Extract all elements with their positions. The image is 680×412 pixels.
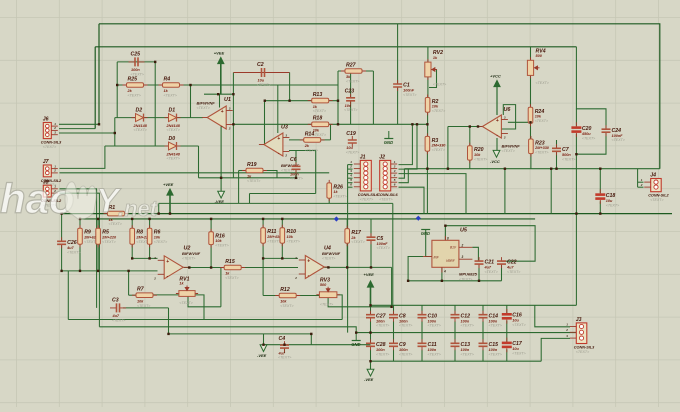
wire <box>372 71 374 124</box>
svg-text:<TEXT>: <TEXT> <box>346 80 359 84</box>
wire R24-R23 column <box>530 122 532 139</box>
wire J2 pin6 <box>399 187 425 213</box>
wire <box>347 165 349 333</box>
resistor R26 <box>327 180 347 201</box>
svg-text:500: 500 <box>536 54 543 58</box>
wire <box>504 169 506 214</box>
wire +VCC stem <box>496 87 498 116</box>
resistor R7 <box>132 287 157 308</box>
svg-text:<TEXT>: <TEXT> <box>399 324 412 328</box>
wire U2 plus row <box>132 257 157 259</box>
svg-text:<TEXT>: <TEXT> <box>536 81 549 85</box>
wire <box>219 94 221 107</box>
wire J6 pin2 <box>59 128 95 130</box>
svg-text:<TEXT>: <TEXT> <box>225 276 238 280</box>
resistor R3 <box>425 133 446 154</box>
power +VEE <box>364 272 375 287</box>
svg-text:<TEXT>: <TEXT> <box>474 157 487 161</box>
svg-text:J2: J2 <box>379 155 385 161</box>
ground <box>351 333 361 347</box>
svg-text:<TEXT>: <TEXT> <box>164 94 177 98</box>
wire C20/C24 bottom bus <box>576 132 606 154</box>
svg-text:10k: 10k <box>280 300 287 304</box>
svg-text:<TEXT>: <TEXT> <box>576 350 589 354</box>
svg-text:+: + <box>166 259 169 265</box>
wire C4 bottom lead <box>284 348 286 353</box>
wire J3 pin1 route <box>535 305 570 327</box>
svg-text:<TEXT>: <TEXT> <box>428 352 441 356</box>
svg-text:100n: 100n <box>461 319 470 323</box>
svg-text:4u7: 4u7 <box>66 246 74 250</box>
connector J4 <box>640 173 670 202</box>
svg-text:<TEXT>: <TEXT> <box>432 148 445 152</box>
svg-text:2M+220: 2M+220 <box>101 235 117 239</box>
wire J4 drop <box>637 169 639 188</box>
wire <box>262 258 264 295</box>
wire R27 row <box>338 70 373 72</box>
resistor R20 <box>468 143 488 163</box>
wire +VEE stem (U2) <box>169 195 171 214</box>
wire RV3 right <box>337 295 342 320</box>
svg-text:<TEXT>: <TEXT> <box>102 240 115 244</box>
resistor R13 <box>308 92 333 113</box>
svg-text:2k: 2k <box>127 89 133 93</box>
ground <box>384 131 394 145</box>
wire <box>249 194 251 204</box>
wire C1 leads <box>397 24 399 84</box>
svg-text:R4: R4 <box>164 76 171 82</box>
svg-text:<TEXT>: <TEXT> <box>128 94 141 98</box>
wire U3 output stem <box>264 101 266 145</box>
wire RV3 wiper loop <box>328 267 392 306</box>
svg-text:2: 2 <box>640 183 643 187</box>
wire U5 bottom pin <box>441 267 443 281</box>
svg-text:10u: 10u <box>512 319 519 323</box>
op-amp U1 <box>202 106 233 131</box>
svg-text:<TEXT>: <TEXT> <box>432 109 445 113</box>
power -VEE <box>215 191 225 204</box>
potentiometer RV2 <box>425 50 446 86</box>
resistor R11 <box>261 225 282 247</box>
wire U2 minus row <box>62 270 158 272</box>
wire R20 leads <box>469 127 471 146</box>
wire R25 row <box>117 84 338 86</box>
svg-text:<TEXT>: <TEXT> <box>167 128 180 132</box>
svg-text:+: + <box>307 259 310 265</box>
wire U6 pin3 row <box>508 121 531 123</box>
wire U5 top loop <box>445 226 535 262</box>
svg-text:<TEXT>: <TEXT> <box>459 278 472 282</box>
wire <box>67 271 69 320</box>
diode D2 <box>132 107 148 132</box>
svg-text:10k: 10k <box>535 115 542 119</box>
svg-text:.net: .net <box>118 196 159 221</box>
capacitor C15 <box>479 339 502 356</box>
svg-text:100n: 100n <box>399 348 408 352</box>
capacitor C16 (polarized) <box>502 309 526 327</box>
svg-text:+VCC: +VCC <box>490 74 501 79</box>
svg-text:10k: 10k <box>137 299 144 303</box>
resistor R10 <box>280 225 300 247</box>
svg-text:100nF: 100nF <box>403 89 415 93</box>
wire RV1 wiper <box>188 296 221 306</box>
wire J4 pin2 <box>638 186 644 188</box>
svg-text:R18: R18 <box>313 116 323 122</box>
wire +VEE stem <box>220 62 222 94</box>
svg-text:10k: 10k <box>287 235 294 239</box>
svg-text:2: 2 <box>153 276 156 280</box>
svg-text:100n: 100n <box>461 348 470 352</box>
svg-text:4: 4 <box>443 270 446 274</box>
wire <box>238 171 240 204</box>
svg-text:4: 4 <box>393 174 396 178</box>
wire <box>131 244 133 258</box>
svg-text:10k: 10k <box>474 153 481 157</box>
capacitor C3 <box>110 297 126 322</box>
svg-text:CONN-SIL2: CONN-SIL2 <box>648 194 669 198</box>
wire U1 pin row / R18 bus <box>233 123 427 125</box>
resistor R12 <box>275 287 300 308</box>
wire U1 feedback vertical <box>232 73 234 178</box>
svg-text:C25: C25 <box>131 51 141 57</box>
power +VEE <box>163 182 174 195</box>
svg-text:+: + <box>221 109 224 115</box>
wire <box>198 146 200 178</box>
wire U5 bottom bus <box>408 280 501 282</box>
svg-text:500n: 500n <box>562 153 571 157</box>
wire C6 top lead <box>295 151 297 165</box>
resistor R25 <box>123 76 148 97</box>
wire R17 stubs <box>346 219 348 229</box>
capacitor C6 <box>290 157 303 181</box>
resistor R6 <box>147 225 167 247</box>
svg-text:-VEE: -VEE <box>364 377 374 382</box>
svg-text:BIFWVNF: BIFWVNF <box>197 100 216 105</box>
op-amp U4 <box>294 256 329 281</box>
wire J2 pin3 row <box>399 174 467 214</box>
svg-text:<TEXT>: <TEXT> <box>377 246 390 250</box>
svg-text:R13: R13 <box>313 92 323 98</box>
capacitor C5 <box>367 233 390 250</box>
svg-text:4u7: 4u7 <box>484 266 492 270</box>
svg-text:-VEE: -VEE <box>257 353 267 358</box>
svg-text:+VEE: +VEE <box>163 182 174 187</box>
wire <box>262 243 264 258</box>
connector J2 <box>377 155 398 202</box>
resistor R18 <box>308 116 333 137</box>
wire RV1 right <box>195 295 204 320</box>
wire U4 plus row <box>263 257 298 259</box>
power +VEE <box>214 51 225 64</box>
wire C21 C22 bottom leads <box>478 264 480 281</box>
svg-text:<TEXT>: <TEXT> <box>154 240 167 244</box>
wire top bus <box>99 24 660 169</box>
wire <box>277 85 279 133</box>
svg-text:<TEXT>: <TEXT> <box>287 239 300 243</box>
svg-text:10k: 10k <box>215 239 222 243</box>
wire C23 leads <box>350 71 352 98</box>
capacitor C23 <box>344 89 357 113</box>
wire <box>220 268 222 307</box>
ground <box>421 230 431 237</box>
svg-text:U1: U1 <box>224 97 231 103</box>
wire diode row <box>115 117 203 119</box>
wire <box>158 203 160 213</box>
svg-text:100n: 100n <box>376 348 385 352</box>
wire <box>315 151 317 194</box>
wire U1 top row <box>204 93 233 95</box>
svg-text:C2: C2 <box>257 62 264 68</box>
wire RV4 leads <box>530 47 532 61</box>
capacitor C4 <box>278 336 292 360</box>
svg-text:R27: R27 <box>346 62 357 68</box>
capacitor C19 <box>346 131 359 155</box>
connector J3 <box>565 317 595 354</box>
svg-text:<TEXT>: <TEXT> <box>280 304 293 308</box>
svg-text:2M+330: 2M+330 <box>534 146 550 150</box>
diode D1 <box>165 107 181 132</box>
svg-text:2k: 2k <box>350 236 356 240</box>
svg-text:4: 4 <box>349 174 352 178</box>
wire bus 203 <box>159 202 393 204</box>
capacitor C17 (polarized) <box>502 338 526 356</box>
svg-text:D0: D0 <box>169 136 176 142</box>
wire <box>530 154 532 169</box>
svg-text:<TEXT>: <TEXT> <box>313 109 326 113</box>
wire J6 pin3 <box>59 132 115 134</box>
wire R3 column <box>427 112 429 136</box>
svg-text:BIFWVNF: BIFWVNF <box>182 251 201 256</box>
wire bus 327 <box>99 327 356 333</box>
op-amp U6 <box>477 115 508 140</box>
wire bus B <box>80 218 535 220</box>
svg-text:<TEXT>: <TEXT> <box>333 195 346 199</box>
svg-text:+VEE: +VEE <box>214 51 225 56</box>
wire J7 pin2 <box>60 172 330 174</box>
wire <box>310 334 312 345</box>
wire U6 output row <box>448 126 483 128</box>
svg-text:2: 2 <box>228 127 231 131</box>
svg-text:C19: C19 <box>346 131 356 137</box>
svg-text:<TEXT>: <TEXT> <box>376 352 389 356</box>
capacitor C1 <box>393 80 416 97</box>
svg-text:<TEXT>: <TEXT> <box>215 243 228 247</box>
svg-text:<TEXT>: <TEXT> <box>134 128 147 132</box>
svg-text:10k: 10k <box>154 235 161 239</box>
svg-text:<TEXT>: <TEXT> <box>257 83 270 87</box>
svg-text:4u7: 4u7 <box>506 266 514 270</box>
capacitor C18 (polarized) <box>595 189 619 207</box>
wire cap bank top bus <box>371 304 577 306</box>
wire C20/C24 top bus <box>576 47 606 129</box>
wire J2 pin2 <box>399 124 418 169</box>
wire C26 leads <box>61 214 63 242</box>
wire -VCC stem <box>496 138 498 151</box>
wire <box>154 62 156 146</box>
svg-text:<TEXT>: <TEXT> <box>512 352 525 356</box>
svg-text:<TEXT>: <TEXT> <box>322 257 335 261</box>
wire <box>114 118 116 146</box>
svg-text:C6: C6 <box>290 157 297 163</box>
wire R19 row <box>239 170 246 172</box>
wire J1 comb <box>348 164 353 166</box>
wire <box>263 171 277 178</box>
wire cap bank bottom bus <box>371 360 542 362</box>
capacitor C28 <box>366 339 389 356</box>
svg-text:<TEXT>: <TEXT> <box>247 179 260 183</box>
svg-text:<TEXT>: <TEXT> <box>278 356 291 360</box>
svg-text:<TEXT>: <TEXT> <box>376 324 389 328</box>
wire J2 pin1 <box>399 124 413 164</box>
svg-text:hao: hao <box>0 175 75 222</box>
svg-text:<TEXT>: <TEXT> <box>489 324 502 328</box>
wire U3 pin3 row <box>289 139 331 141</box>
svg-text:C23: C23 <box>345 89 355 95</box>
capacitor C27 <box>366 311 389 328</box>
wire bus 334 <box>169 333 312 335</box>
svg-text:<TEXT>: <TEXT> <box>562 157 575 161</box>
capacitor C7 <box>552 144 575 161</box>
svg-text:R19: R19 <box>247 162 257 168</box>
wire C5 leads <box>370 219 372 237</box>
wire <box>199 177 297 179</box>
svg-text:<TEXT>: <TEXT> <box>43 145 56 149</box>
wire U2 output row <box>184 267 298 269</box>
svg-text:10u: 10u <box>512 347 519 351</box>
wire <box>575 134 577 305</box>
svg-text:CONN-SIL6: CONN-SIL6 <box>358 193 379 197</box>
svg-text:2M+330: 2M+330 <box>431 144 447 148</box>
svg-text:<TEXT>: <TEXT> <box>535 119 548 123</box>
wire R11 R10 stubs <box>262 219 264 228</box>
power -VEE <box>257 345 267 358</box>
resistor R4 <box>159 76 184 97</box>
svg-text:<TEXT>: <TEXT> <box>67 250 80 254</box>
power -VCC <box>490 150 500 164</box>
node marker blue <box>334 216 339 221</box>
resistor R23 <box>529 136 550 157</box>
svg-text:2: 2 <box>565 328 568 332</box>
svg-text:+: + <box>496 118 499 124</box>
wire R12 RV3 row <box>263 295 319 297</box>
svg-text:<TEXT>: <TEXT> <box>606 203 619 207</box>
capacitor C14 <box>479 311 502 328</box>
resistor R24 <box>528 104 548 126</box>
svg-text:<TEXT>: <TEXT> <box>502 149 515 153</box>
wire J8 pin2 <box>60 193 100 327</box>
power +VCC <box>490 74 501 87</box>
wire J6 pin1 <box>59 123 99 125</box>
svg-text:-VEE: -VEE <box>215 199 225 204</box>
svg-text:<TEXT>: <TEXT> <box>461 352 474 356</box>
svg-text:VRRF: VRRF <box>446 259 456 263</box>
wire <box>98 24 100 125</box>
svg-text:R14: R14 <box>305 131 315 137</box>
wire U4 output row <box>324 266 391 268</box>
svg-text:<TEXT>: <TEXT> <box>351 240 364 244</box>
svg-text:R25: R25 <box>128 76 138 82</box>
wire D0 row <box>105 145 199 147</box>
potentiometer RV3 <box>316 278 340 307</box>
svg-text:<TEXT>: <TEXT> <box>267 239 280 243</box>
capacitor C13 <box>451 339 474 356</box>
wire C2 row <box>233 72 289 74</box>
IC U5 <box>423 228 478 282</box>
wire <box>168 308 170 334</box>
wire R16 stubs <box>210 219 212 232</box>
wire <box>575 109 577 127</box>
op-amp U3 <box>259 133 290 158</box>
connector J7 <box>41 159 62 187</box>
svg-text:<TEXT>: <TEXT> <box>179 301 192 305</box>
svg-text:<TEXT>: <TEXT> <box>507 270 520 274</box>
capacitor C11 <box>418 339 441 356</box>
svg-text:U6: U6 <box>504 107 512 113</box>
wire bus 319 <box>68 319 342 321</box>
svg-text:<TEXT>: <TEXT> <box>137 304 150 308</box>
svg-text:10k: 10k <box>432 105 439 109</box>
svg-text:<TEXT>: <TEXT> <box>433 83 446 87</box>
wire U3 output / R13 row <box>265 100 339 102</box>
svg-text:100n: 100n <box>428 348 437 352</box>
watermark <box>0 175 159 222</box>
svg-text:100nF: 100nF <box>612 134 624 138</box>
diode D0 <box>165 136 181 161</box>
wire cap bank mid bus <box>356 332 576 334</box>
wire -VEE stem (bank) <box>370 361 372 369</box>
wire <box>129 294 136 296</box>
wire C18 leads <box>599 169 601 194</box>
svg-text:U5: U5 <box>460 228 468 234</box>
wire <box>263 334 265 345</box>
resistor R14 <box>300 131 325 152</box>
svg-text:8: 8 <box>447 237 449 241</box>
svg-text:MPU6825: MPU6825 <box>459 272 478 277</box>
wire J8 pin1 <box>60 189 97 308</box>
connector J8 <box>41 179 62 207</box>
potentiometer RV4 <box>527 48 548 85</box>
svg-text:<TEXT>: <TEXT> <box>403 93 416 97</box>
svg-text:+VEE: +VEE <box>364 272 375 277</box>
wire RV2 wiper <box>429 70 437 88</box>
svg-text:<TEXT>: <TEXT> <box>320 302 333 306</box>
wire C3 right <box>123 307 169 309</box>
wire U3 pin2 row <box>289 150 316 152</box>
capacitor C24 <box>602 125 625 142</box>
capacitor C10 <box>418 311 441 328</box>
svg-text:D2: D2 <box>136 107 143 113</box>
power -VEE <box>364 369 374 382</box>
svg-text:R15: R15 <box>225 259 235 265</box>
resistor R19 <box>242 162 267 183</box>
svg-text:<TEXT>: <TEXT> <box>461 324 474 328</box>
wire J2 pin4 <box>399 169 405 179</box>
svg-text:100n: 100n <box>489 348 498 352</box>
svg-text:100n: 100n <box>399 319 408 323</box>
op-amp U2 <box>153 256 188 280</box>
svg-text:100nF: 100nF <box>377 242 389 246</box>
svg-text:2: 2 <box>53 169 56 173</box>
svg-text:<TEXT>: <TEXT> <box>109 222 122 226</box>
svg-text:CONN-SIL3: CONN-SIL3 <box>574 346 595 350</box>
wire bank cap leads <box>370 305 372 314</box>
svg-text:BIFWVNF: BIFWVNF <box>322 251 341 256</box>
wire <box>447 127 449 169</box>
resistor R8 <box>130 225 150 247</box>
svg-text:<TEXT>: <TEXT> <box>485 270 498 274</box>
svg-text:CONN-SIL3: CONN-SIL3 <box>41 141 62 145</box>
svg-text:+: + <box>277 136 280 142</box>
